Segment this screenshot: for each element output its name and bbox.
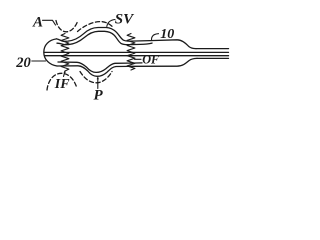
node SV: dashed arc over bump [78, 22, 114, 32]
wire: leader for label 10 [151, 34, 158, 41]
wire: catheter outer bottom line [197, 57, 229, 59]
wire: catheter outer top line 10 [196, 48, 229, 50]
svg-text:P: P [94, 88, 104, 104]
svg-text:20: 20 [15, 55, 31, 71]
wire: leader for label P [97, 78, 99, 89]
node IF: dashed dome below [47, 73, 77, 90]
wire: leader for label A [43, 20, 56, 25]
wire: arrowhead of IF leader [64, 70, 66, 73]
wire: top inner wall line [57, 31, 152, 44]
wire: top outer wall with SV bump [57, 28, 197, 49]
svg-text:OF: OF [142, 53, 159, 67]
svg-text:A: A [32, 14, 43, 30]
node P: dashed posterior arc under dip [80, 72, 112, 83]
svg-text:SV: SV [115, 12, 135, 28]
node A: dashed anterior cup [56, 21, 78, 32]
wire: bottom inner wall line [58, 62, 142, 72]
svg-text:IF: IF [54, 77, 70, 92]
svg-text:10: 10 [160, 27, 174, 42]
wire: bottom outer wall with P dip [57, 58, 197, 76]
wire: leader for label SV [107, 20, 115, 27]
wire: leader for label 20 [32, 60, 46, 62]
node: left end cap of device 20 [44, 39, 57, 66]
wire: lower center shaft line [45, 55, 229, 57]
wire: leader for label OF [135, 58, 142, 60]
capacitor: outflow filter OF zigzag [127, 34, 135, 71]
capacitor: inflow filter IF zigzag [61, 34, 69, 72]
wire: upper center shaft line [45, 51, 229, 53]
wire: arrowhead of P leader [97, 77, 99, 79]
wire: leader for label IF [64, 72, 65, 77]
